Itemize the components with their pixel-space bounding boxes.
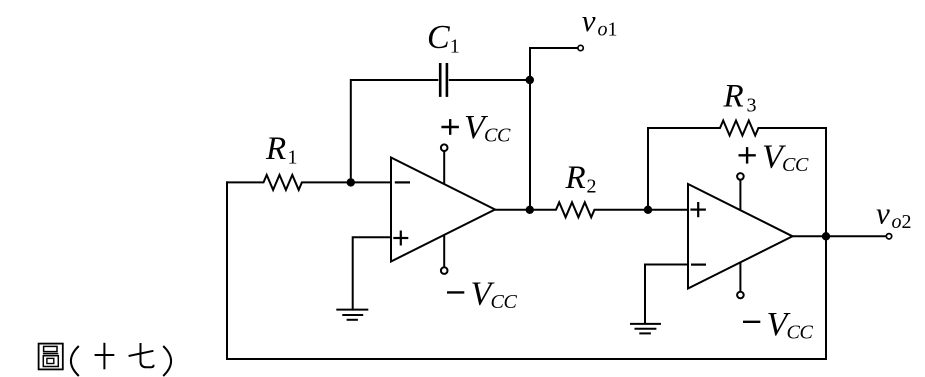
svg-text:3: 3	[747, 95, 757, 117]
svg-text:v: v	[876, 196, 890, 231]
svg-text:C: C	[782, 154, 796, 176]
svg-text:2: 2	[902, 211, 912, 233]
svg-text:R: R	[565, 160, 586, 196]
svg-text:C: C	[497, 125, 511, 147]
svg-text:R: R	[265, 131, 286, 167]
svg-text:o: o	[892, 211, 902, 233]
svg-text:C: C	[504, 291, 518, 313]
svg-text:1: 1	[608, 19, 618, 41]
svg-text:o: o	[598, 19, 608, 41]
svg-text:R: R	[723, 79, 744, 115]
svg-text:1: 1	[288, 147, 298, 169]
svg-text:1: 1	[450, 36, 460, 58]
svg-text:C: C	[484, 125, 498, 147]
svg-text:C: C	[800, 322, 814, 344]
svg-text:v: v	[582, 3, 596, 38]
svg-text:C: C	[427, 19, 450, 56]
svg-text:C: C	[787, 322, 801, 344]
svg-text:C: C	[795, 154, 809, 176]
svg-text:2: 2	[587, 176, 597, 198]
svg-text:C: C	[491, 291, 505, 313]
